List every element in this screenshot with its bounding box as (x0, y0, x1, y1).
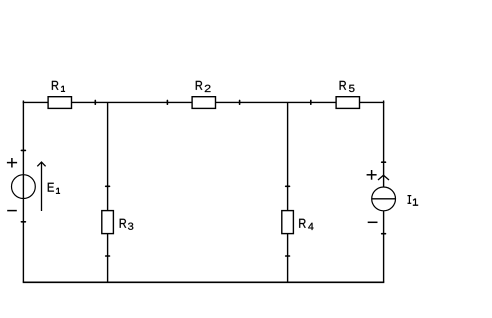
wire top rail segment R1 to R2 (node at R3 branch) (71, 101, 192, 103)
node tick top rail b (166, 100, 168, 104)
node tick right branch upper (382, 161, 386, 163)
current source I1 diameter bar (372, 198, 396, 200)
label I1 (408, 195, 419, 205)
resistor R3 body (102, 211, 114, 234)
wire right branch lower (I1 to bottom rail) (383, 211, 385, 283)
current source I1 circle (372, 187, 396, 211)
node tick top rail a (94, 100, 96, 104)
node tick R4 branch upper (286, 185, 290, 187)
wire left branch (through E1) (22, 101, 24, 283)
wire bottom rail (23, 281, 385, 283)
wire R3 branch upper (107, 102, 109, 210)
label R3 (120, 219, 134, 230)
current source I1 minus sign (368, 221, 378, 223)
current source I1 plus sign (367, 170, 377, 180)
wire top rail right segment (R5 to corner) (359, 101, 384, 103)
resistor R1 body (48, 97, 71, 109)
voltage source E1 plus sign (7, 158, 17, 168)
wire R3 branch lower (107, 234, 109, 282)
node tick R4 branch lower (286, 255, 290, 257)
node tick left branch lower (21, 221, 25, 223)
node tick R3 branch lower (106, 255, 110, 257)
resistor R5 body (336, 97, 359, 109)
node tick R3 branch upper (106, 185, 110, 187)
wire R4 branch upper (287, 102, 289, 210)
node tick top rail c (239, 100, 241, 104)
node tick top rail d (310, 100, 312, 104)
current source I1 arrowhead (378, 175, 389, 180)
voltage source E1 minus sign (7, 210, 17, 212)
resistor R4 body (282, 211, 294, 234)
node tick left branch upper (21, 149, 25, 151)
wire R4 branch lower (287, 234, 289, 282)
wire top rail segment R2 to R5 (node at R4 branch) (215, 101, 336, 103)
wire top rail left segment (corner to R1) (23, 101, 49, 103)
voltage source E1 circle (12, 175, 36, 199)
label R4 (299, 219, 313, 230)
label R5 (340, 81, 355, 92)
wire right branch upper (corner to I1) (383, 101, 385, 188)
node tick right branch lower (382, 233, 386, 235)
label E1 (48, 183, 60, 194)
label R1 (52, 81, 65, 92)
voltage source E1 arrow (37, 162, 45, 211)
resistor R2 body (192, 97, 215, 109)
label R2 (196, 81, 211, 92)
